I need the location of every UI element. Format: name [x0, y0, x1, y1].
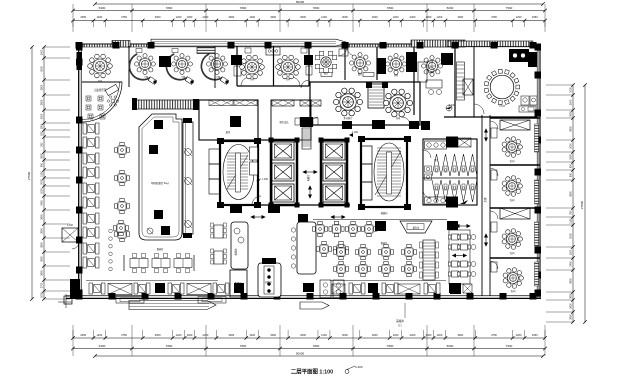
canopy hatched block top-left — [112, 41, 130, 48]
exterior wall left — [78, 44, 80, 298]
svg-text:1200: 1200 — [321, 333, 327, 337]
dimension line bottom total 50000 — [95, 355, 543, 357]
corridor arrow core vertical — [309, 186, 312, 198]
servery hatch band — [133, 100, 196, 109]
svg-text:3000: 3000 — [457, 15, 463, 19]
wall right corridor — [481, 115, 483, 296]
svg-text:明档取餐台 64㎡: 明档取餐台 64㎡ — [151, 181, 169, 185]
svg-text:3000: 3000 — [228, 333, 234, 337]
svg-text:5000: 5000 — [447, 6, 454, 10]
columns exterior left wall — [76, 44, 83, 51]
buffet counter right — [183, 122, 193, 234]
svg-text:3600: 3600 — [570, 111, 573, 117]
wall top-left zone — [214, 46, 216, 88]
bottom booth row left section — [89, 283, 105, 294]
svg-text:3000: 3000 — [228, 15, 234, 19]
svg-text:2050: 2050 — [532, 15, 538, 19]
svg-text:3600: 3600 — [570, 303, 573, 309]
decor box between rooms — [266, 47, 280, 55]
round table room 3 — [386, 54, 407, 75]
svg-text:1200: 1200 — [249, 15, 255, 19]
right-mid middle arrow — [453, 254, 467, 257]
wall top-left room right — [128, 46, 130, 87]
kids area tables — [86, 96, 91, 101]
toilet basin strip bottom — [425, 197, 447, 204]
svg-text:3000: 3000 — [372, 333, 378, 337]
svg-text:1200: 1200 — [516, 333, 522, 337]
office plant — [446, 105, 452, 111]
svg-text:7800: 7800 — [166, 344, 173, 348]
svg-text:2400: 2400 — [570, 261, 573, 267]
svg-text:7800: 7800 — [313, 6, 320, 10]
platform bottom exterior — [129, 301, 216, 310]
exterior wall top — [79, 43, 540, 45]
column black VIP left — [441, 53, 453, 65]
svg-text:收银台: 收银台 — [234, 248, 238, 256]
service cart 182 — [185, 77, 194, 85]
xsquare right-mid bottom — [463, 284, 472, 293]
svg-text:包间: 包间 — [511, 289, 516, 293]
six-seat table 2 — [214, 251, 223, 264]
dimension line bottom segments — [73, 348, 545, 350]
svg-text:7500: 7500 — [506, 6, 513, 10]
right-mid stool circles — [471, 235, 476, 240]
extension lines right — [546, 84, 573, 86]
svg-text:3.400: 3.400 — [449, 104, 456, 107]
svg-text:儿童游乐区: 儿童游乐区 — [94, 88, 107, 92]
mid dining tables right of noodle — [316, 241, 331, 256]
step box 2 — [198, 297, 226, 304]
column interior wall room 2 — [304, 55, 313, 65]
toilet basin strip top — [425, 141, 447, 149]
svg-text:3600: 3600 — [570, 126, 573, 132]
svg-text:2400: 2400 — [41, 200, 44, 206]
column right-mid top — [447, 221, 458, 230]
right-mid twin table runs — [449, 230, 470, 284]
round table hall 2 — [383, 89, 412, 117]
stair 1 right cells — [250, 147, 258, 160]
exterior wall right — [539, 44, 541, 298]
round table room 2 — [276, 55, 301, 79]
prep room — [230, 270, 247, 297]
kids mat — [105, 84, 118, 95]
svg-text:27800: 27800 — [27, 171, 31, 180]
svg-text:3600: 3600 — [41, 270, 44, 276]
svg-text:7800: 7800 — [387, 6, 394, 10]
stage trapezoid — [400, 221, 432, 233]
dimension line top detail — [73, 20, 545, 22]
stair 2 corner columns — [358, 136, 365, 142]
elevator bank 2 — [321, 140, 347, 205]
svg-text:1200: 1200 — [249, 333, 255, 337]
arc banquette table 145 — [129, 54, 150, 80]
service cart 145 — [148, 77, 157, 85]
svg-text:1150: 1150 — [570, 218, 573, 224]
toilet arrow bottom — [460, 200, 468, 204]
left dining tables column — [114, 142, 129, 157]
column black interior top — [377, 58, 386, 74]
svg-text:850: 850 — [41, 142, 44, 147]
servery ladder — [302, 128, 311, 149]
svg-text:(上): (上) — [398, 323, 402, 327]
svg-text:2050: 2050 — [80, 15, 86, 19]
door corner bottom-left — [64, 296, 72, 304]
column black bottom mid — [303, 283, 314, 292]
banquet tables mid — [333, 244, 348, 259]
buffet counter plates — [185, 149, 192, 156]
svg-text:1200: 1200 — [437, 333, 443, 337]
svg-text:3000: 3000 — [570, 99, 573, 105]
svg-text:6300: 6300 — [99, 6, 106, 10]
mid dining row top — [312, 221, 327, 236]
column corner bottom-left black bar — [70, 279, 80, 299]
svg-text:3750: 3750 — [491, 15, 497, 19]
dumbwaiter right 1 — [500, 120, 530, 130]
svg-text:7800: 7800 — [240, 6, 247, 10]
dimension line top segments — [73, 10, 545, 12]
svg-text:3000: 3000 — [372, 15, 378, 19]
svg-text:2700: 2700 — [41, 282, 44, 288]
svg-text:650: 650 — [570, 163, 573, 168]
column above toilets — [421, 121, 430, 130]
svg-text:包间: 包间 — [510, 198, 515, 202]
svg-text:3000: 3000 — [155, 333, 161, 337]
svg-text:1200: 1200 — [176, 333, 182, 337]
svg-text:3000: 3000 — [41, 113, 44, 119]
svg-text:3600: 3600 — [41, 228, 44, 234]
servery room wall — [271, 100, 311, 140]
wall mid-left dining — [195, 115, 197, 250]
svg-text:950: 950 — [41, 162, 44, 167]
round table open 2 — [350, 53, 371, 74]
column black VIP right corner — [528, 52, 537, 67]
svg-text:1000: 1000 — [570, 87, 573, 93]
svg-text:3000: 3000 — [270, 333, 276, 337]
sideboard 2 — [363, 73, 374, 77]
svg-text:850: 850 — [570, 172, 573, 177]
bottom booth row back line — [86, 280, 218, 282]
svg-text:1000: 1000 — [41, 188, 44, 194]
svg-text:650: 650 — [41, 131, 44, 136]
wall cabinet right of table — [339, 49, 348, 56]
svg-text:2200: 2200 — [203, 15, 209, 19]
left dining extra table — [113, 220, 128, 235]
VIP washroom counter — [519, 106, 536, 112]
svg-text:1800: 1800 — [570, 154, 573, 160]
svg-text:1.400: 1.400 — [352, 131, 359, 134]
svg-text:1000: 1000 — [570, 249, 573, 255]
entrance door arcs — [338, 47, 347, 56]
svg-text:1200: 1200 — [516, 15, 522, 19]
left strip stool circles — [109, 229, 113, 233]
round table big top-left — [88, 54, 113, 78]
svg-text:27800: 27800 — [580, 200, 584, 209]
window band top wall segments — [83, 44, 113, 47]
round table hall 1 — [333, 88, 362, 116]
arrow mid 2 — [331, 216, 345, 219]
svg-text:3600: 3600 — [570, 191, 573, 197]
svg-text:1800: 1800 — [41, 123, 44, 129]
shaft hall 2 — [368, 84, 384, 108]
right wall window hatches — [535, 124, 539, 152]
service stack — [320, 280, 331, 298]
wall corridor core bottom — [257, 204, 350, 206]
column black mid — [375, 221, 386, 231]
svg-text:1000: 1000 — [426, 333, 432, 337]
wall banquet zone top — [313, 219, 447, 221]
top rooms door arcs — [241, 77, 250, 86]
column bottom corridor — [449, 283, 459, 293]
columns exterior right wall — [535, 44, 542, 51]
arrow right-mid top — [456, 225, 470, 228]
svg-text:2200: 2200 — [410, 333, 416, 337]
svg-text:50000: 50000 — [296, 352, 305, 356]
solo dining station — [258, 263, 281, 297]
wall kids area quarter arc — [82, 81, 122, 83]
svg-text:3750: 3750 — [121, 333, 127, 337]
dimension line left total 27800 — [31, 47, 33, 299]
toilet column top — [446, 137, 458, 148]
toilet door arcs — [423, 150, 431, 158]
svg-text:包间: 包间 — [510, 251, 515, 255]
dimension line top total 50000 — [95, 3, 543, 5]
toilet left fixtures — [425, 166, 432, 172]
svg-text:5000: 5000 — [447, 344, 454, 348]
arc banquette table 182 — [166, 54, 187, 80]
toilet stalls bottom row — [432, 180, 441, 202]
svg-text:1200: 1200 — [321, 15, 327, 19]
column black interior top 2 — [406, 52, 417, 72]
svg-text:1200: 1200 — [437, 15, 443, 19]
VIP washroom basins — [521, 96, 529, 105]
six-seat table 1 — [214, 225, 223, 238]
extension lines bottom — [72, 330, 74, 338]
svg-text:3000: 3000 — [155, 15, 161, 19]
stair 1 side cells — [209, 149, 220, 164]
door arc wall 309 — [301, 80, 309, 88]
svg-text:1200: 1200 — [393, 333, 399, 337]
svg-text:3600: 3600 — [41, 256, 44, 262]
hall door arcs — [310, 117, 318, 125]
svg-text:2000: 2000 — [41, 179, 44, 185]
svg-text:1200: 1200 — [96, 333, 102, 337]
servery window X-strip 2 — [300, 100, 321, 106]
svg-text:7500: 7500 — [506, 344, 513, 348]
svg-text:1150: 1150 — [41, 171, 44, 177]
svg-text:3.400: 3.400 — [355, 365, 363, 369]
title level symbol — [345, 370, 349, 374]
right room tables — [502, 137, 522, 158]
wall top rooms right — [344, 47, 346, 80]
svg-text:1000: 1000 — [41, 49, 44, 55]
wall cabinets rooms — [245, 48, 251, 53]
toilet column bottom — [446, 197, 458, 208]
round table room 1 — [240, 55, 265, 79]
VIP door arc — [474, 104, 484, 114]
VIP bar counter — [509, 49, 529, 62]
svg-text:3750: 3750 — [121, 15, 127, 19]
VIP dumbwaiter — [463, 79, 473, 95]
elevator bank 1 corner columns — [269, 138, 274, 143]
svg-text:1200: 1200 — [393, 15, 399, 19]
walls right room column — [490, 117, 540, 119]
dimension line right detail — [572, 85, 574, 322]
svg-text:7800: 7800 — [387, 344, 394, 348]
svg-text:3000: 3000 — [270, 15, 276, 19]
stair 1 oval — [223, 145, 254, 200]
svg-text:2000: 2000 — [570, 233, 573, 239]
canopy top entrance — [151, 39, 348, 46]
stair 2 walls — [361, 139, 407, 207]
svg-text:1000: 1000 — [187, 333, 193, 337]
corridor arrow core — [303, 171, 317, 174]
heating well leader — [404, 303, 406, 318]
svg-text:3000: 3000 — [300, 333, 306, 337]
toilet stalls top row — [432, 154, 441, 176]
wall VIP room — [454, 46, 456, 117]
svg-text:1.400: 1.400 — [262, 178, 269, 181]
columns exterior bottom wall — [76, 293, 83, 300]
svg-text:2200: 2200 — [410, 15, 416, 19]
elevator bank 1 — [271, 140, 297, 205]
stair 2 side cells — [361, 146, 372, 164]
left dining tables row — [130, 259, 148, 268]
svg-text:3600: 3600 — [41, 153, 44, 159]
corridor arrows right — [485, 129, 488, 141]
columns exterior top wall — [76, 42, 83, 49]
stair 2 oval — [374, 143, 404, 201]
bottom booth row right section — [349, 283, 365, 294]
svg-text:3000: 3000 — [457, 333, 463, 337]
svg-text:2200: 2200 — [203, 333, 209, 337]
svg-text:2050: 2050 — [532, 333, 538, 337]
arc banquette table 217 — [201, 54, 222, 80]
column above stair 2 — [372, 120, 385, 129]
servery shaft black — [300, 117, 313, 127]
svg-text:1000: 1000 — [187, 15, 193, 19]
wall core room — [199, 100, 258, 140]
svg-text:3750: 3750 — [491, 333, 497, 337]
svg-text:3000: 3000 — [342, 333, 348, 337]
exterior wall bottom — [66, 298, 541, 300]
extension lines top — [72, 21, 74, 28]
columns mid black — [230, 205, 242, 213]
buffet island outline — [139, 114, 182, 240]
svg-text:3600: 3600 — [570, 314, 573, 320]
arrow mid 1 — [251, 216, 265, 219]
svg-text:包间: 包间 — [510, 159, 515, 163]
svg-text:3600: 3600 — [41, 99, 44, 105]
svg-text:3000: 3000 — [342, 15, 348, 19]
svg-text:3600: 3600 — [41, 84, 44, 90]
svg-text:950: 950 — [570, 210, 573, 215]
svg-text:1000: 1000 — [41, 292, 44, 298]
right room door arcs — [490, 121, 498, 129]
svg-text:走廊: 走廊 — [483, 197, 487, 202]
hall bottom wall columns — [342, 121, 352, 129]
striped screen block — [197, 48, 215, 54]
svg-text:6300: 6300 — [99, 344, 106, 348]
core room window X-strips — [209, 100, 233, 106]
svg-text:3000: 3000 — [41, 66, 44, 72]
wall multi-function hall — [310, 82, 420, 125]
svg-text:7800: 7800 — [313, 344, 320, 348]
exterior stair left — [62, 228, 78, 242]
VIP round table large — [490, 75, 514, 99]
svg-text:1000: 1000 — [426, 15, 432, 19]
stair 1 door arc — [252, 196, 261, 205]
round table room 4 — [422, 56, 443, 77]
dumbwaiter right 2 — [500, 208, 530, 219]
svg-text:采暖井: 采暖井 — [396, 319, 404, 323]
black side station — [159, 56, 171, 67]
svg-text:7800: 7800 — [166, 6, 173, 10]
step box 1 — [116, 297, 144, 304]
svg-text:3600: 3600 — [570, 293, 573, 299]
svg-text:7800: 7800 — [240, 344, 247, 348]
elevator bank 2 corner columns — [319, 138, 324, 143]
banquette bench striped — [423, 240, 435, 280]
svg-text:二层平面图 1:100: 二层平面图 1:100 — [291, 368, 333, 376]
dimension line right total 27800 — [584, 85, 586, 322]
svg-text:50000: 50000 — [296, 0, 305, 4]
wall cabinets top small — [136, 49, 142, 53]
extension lines left — [44, 46, 70, 48]
svg-text:3600: 3600 — [41, 214, 44, 220]
svg-text:3600: 3600 — [570, 278, 573, 284]
dimension line bottom detail — [73, 337, 545, 339]
right room cabinets — [491, 128, 497, 138]
svg-text:3000: 3000 — [570, 143, 573, 149]
canopy hatched band top-mid-right — [411, 40, 465, 47]
svg-text:1.100: 1.100 — [67, 224, 74, 227]
cashier counter — [231, 222, 248, 269]
canopy hatched band top-right VIP — [447, 41, 533, 47]
toilet block walls — [423, 139, 477, 205]
office desk — [418, 62, 427, 82]
platform bottom small — [300, 302, 329, 309]
svg-text:1200: 1200 — [96, 15, 102, 19]
service cart 217 — [220, 77, 229, 85]
left wall booths — [83, 123, 99, 134]
VIP corridor fixtures — [457, 62, 465, 100]
sideboard 1 — [321, 73, 332, 77]
svg-text:1200: 1200 — [176, 15, 182, 19]
buffet service stations — [154, 120, 163, 129]
kids round table — [111, 99, 115, 103]
servery window X-strip 1 — [272, 100, 294, 106]
stair 1 corner columns — [217, 138, 224, 144]
wall top rooms row — [236, 46, 238, 86]
eight-seat table open — [321, 57, 331, 67]
stair 1 walls — [220, 141, 258, 205]
dimension line left detail — [43, 47, 45, 299]
column right-mid bottom — [450, 283, 461, 294]
column interior wall room 1 — [231, 55, 242, 65]
svg-text:3600: 3600 — [41, 242, 44, 248]
svg-text:3000: 3000 — [300, 15, 306, 19]
svg-text:2050: 2050 — [80, 333, 86, 337]
toilet xrect top — [458, 138, 471, 147]
noodle counter — [297, 222, 316, 274]
